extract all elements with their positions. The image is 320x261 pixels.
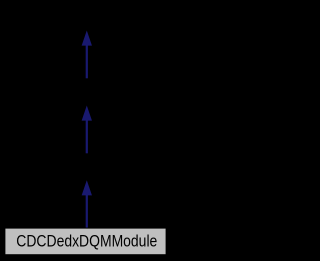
inheritance arrow 2 shaft: [86, 120, 88, 154]
inheritance arrow 1 (top) head: [82, 31, 92, 46]
class node box CDCDedxDQMModule: [5, 228, 166, 255]
svg-text:CDCDedxDQMModule: CDCDedxDQMModule: [16, 233, 157, 251]
inheritance arrow 2 (middle) head: [82, 106, 92, 121]
inheritance arrow 3 (bottom) head: [82, 180, 92, 195]
inheritance arrow 3 shaft: [86, 195, 88, 228]
inheritance arrow 1 shaft: [86, 45, 88, 79]
